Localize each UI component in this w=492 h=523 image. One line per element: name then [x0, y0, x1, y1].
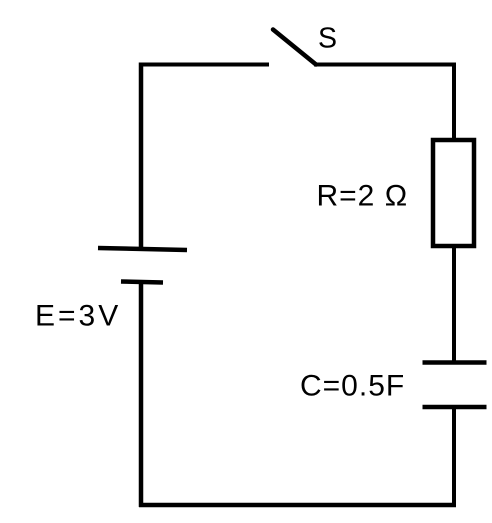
switch S blade — [273, 30, 316, 65]
capacitor C bottom plate — [423, 405, 487, 410]
battery E long plate (positive) — [98, 248, 187, 250]
wire left upper (top to battery) — [139, 63, 144, 250]
wire left lower (battery to bottom) — [139, 282, 144, 507]
battery E short plate (negative) — [121, 282, 163, 283]
wire bottom segment — [139, 503, 456, 508]
capacitor C top plate — [423, 360, 487, 365]
svg-text:E=3V: E=3V — [35, 300, 121, 333]
svg-text:C=0.5F: C=0.5F — [300, 370, 405, 403]
wire right upper (to resistor) — [452, 63, 456, 141]
wire capacitor to bottom — [452, 407, 456, 505]
resistor R1 body — [433, 140, 474, 246]
wire top-left segment — [139, 63, 269, 67]
svg-text:S: S — [318, 23, 337, 55]
svg-text:R=2 Ω: R=2 Ω — [317, 180, 409, 213]
wire resistor to capacitor — [452, 246, 456, 362]
wire top-right segment — [314, 63, 454, 67]
